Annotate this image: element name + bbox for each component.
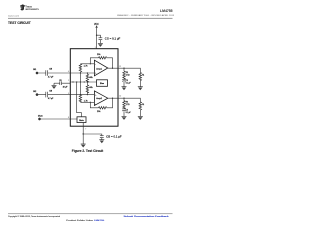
wire output2: [108, 98, 141, 102]
svg-text:Product Folder Links: LM4755: Product Folder Links: LM4755: [66, 219, 104, 222]
svg-text:1: 1: [95, 47, 96, 49]
ground snubber2: [122, 116, 127, 120]
node out1: [123, 68, 124, 69]
svg-text:Mute: Mute: [79, 119, 84, 122]
svg-text:IN1: IN1: [33, 69, 37, 71]
ground bypass: [52, 85, 57, 89]
svg-text:INSTRUMENTS: INSTRUMENTS: [25, 9, 39, 11]
wire minus input A2: [80, 101, 94, 103]
resistor Rb2 40k: [86, 82, 88, 95]
resistor RL1: [139, 72, 141, 80]
svg-text:CB: CB: [59, 80, 61, 82]
svg-text:-: -: [95, 64, 96, 66]
svg-text:RL: RL: [142, 74, 144, 76]
svg-text:Submit Documentation Feedback: Submit Documentation Feedback: [124, 215, 169, 218]
mute riser wire: [77, 82, 82, 117]
ground RL2: [138, 116, 143, 120]
wire mute block to gnd pin: [82, 123, 84, 127]
svg-text:8: 8: [68, 117, 69, 119]
svg-text:CIN: CIN: [49, 90, 52, 92]
wire plus input A2: [70, 94, 94, 96]
wire input2: [38, 94, 70, 96]
ground gnd cap: [99, 140, 104, 144]
svg-text:www.ti.com: www.ti.com: [8, 15, 19, 18]
mute terminal: [38, 118, 40, 120]
Bias block: [97, 80, 108, 87]
input terminal IN2: [36, 94, 38, 96]
op-amp A1: [94, 60, 107, 76]
capacitor CIN2: [46, 92, 48, 98]
svg-text:2.7Ω: 2.7Ω: [126, 104, 130, 106]
IC box U1: [70, 49, 118, 127]
resistor Rf2 20k: [99, 107, 107, 109]
op-amp A2: [94, 91, 107, 106]
svg-text:Copyright © 1999–2013, Texas I: Copyright © 1999–2013, Texas Instruments…: [8, 215, 60, 218]
svg-text:LM4755: LM4755: [160, 9, 173, 13]
wire output1: [108, 68, 141, 72]
svg-text:Bias: Bias: [100, 83, 104, 85]
Mute block: [77, 117, 86, 123]
snubber R2: [123, 98, 125, 109]
wire minus input A1: [80, 63, 94, 65]
capacitor CIN1: [46, 70, 48, 76]
wire gnd pin: [82, 126, 84, 144]
svg-text:40k: 40k: [89, 87, 93, 89]
capacitor CG: [100, 136, 104, 138]
svg-text:4.7 µF: 4.7 µF: [48, 77, 54, 79]
resistor Ri1 1.7k: [79, 72, 81, 82]
svg-text:12: 12: [119, 66, 121, 68]
svg-text:10 µF: 10 µF: [63, 86, 69, 88]
svg-text:IN2: IN2: [33, 91, 37, 93]
svg-text:TEST CIRCUIT: TEST CIRCUIT: [8, 21, 31, 25]
node rail dots: [72, 81, 73, 82]
ground RL1: [138, 87, 143, 91]
svg-text:Figure 2. Test Circuit: Figure 2. Test Circuit: [72, 149, 104, 153]
svg-text:10: 10: [119, 96, 121, 98]
svg-text:RL: RL: [142, 104, 144, 106]
svg-text:Mute: Mute: [38, 115, 44, 118]
wire input1: [38, 72, 70, 74]
ground snubber1: [122, 87, 127, 91]
capacitor CB: [60, 81, 62, 85]
svg-text:2: 2: [68, 80, 69, 82]
ground supply cap: [98, 43, 103, 47]
wire mute: [41, 118, 77, 120]
svg-text:CB = 0.1 µF: CB = 0.1 µF: [106, 137, 122, 139]
svg-text:CIN: CIN: [49, 69, 52, 71]
node gnd junction: [83, 133, 84, 134]
svg-text:Amp2: Amp2: [96, 97, 102, 100]
svg-text:9: 9: [68, 93, 69, 95]
resistor Rf1 20k: [99, 57, 107, 59]
snubber C2: [122, 109, 126, 111]
ground gnd pin: [81, 144, 86, 148]
node out2: [123, 98, 124, 99]
svg-text:SNAS096C – FEBRUARY 2000 – REV: SNAS096C – FEBRUARY 2000 – REVISED APRIL…: [117, 14, 175, 17]
svg-text:2.7Ω: 2.7Ω: [126, 74, 130, 76]
svg-text:0.1 µF: 0.1 µF: [126, 82, 131, 84]
feedback loop A2: [90, 98, 112, 108]
svg-text:4: 4: [68, 71, 69, 73]
svg-text:VCC: VCC: [94, 24, 99, 26]
bias rail: [70, 81, 96, 83]
resistor RL2: [139, 102, 141, 110]
resistor Ri2 1.7k: [79, 82, 81, 95]
snubber R1: [123, 68, 125, 79]
svg-text:Amp1: Amp1: [96, 67, 102, 70]
snubber C1: [122, 79, 126, 81]
header rule: [8, 17, 173, 19]
wire supply: [96, 28, 98, 49]
capacitor CS top: [99, 38, 103, 40]
TI logo bug: [20, 5, 25, 11]
wire bypass: [54, 83, 70, 85]
svg-text:20k: 20k: [97, 111, 101, 113]
wire gnd branch: [83, 134, 102, 140]
svg-text:40k: 40k: [89, 77, 93, 79]
svg-text:4.7 µF: 4.7 µF: [48, 98, 54, 100]
input terminal IN1: [36, 72, 38, 74]
svg-text:7: 7: [85, 128, 86, 130]
wire supply branch: [97, 35, 101, 43]
node supply junction: [96, 35, 97, 36]
svg-text:CS = 0.1 µF: CS = 0.1 µF: [105, 39, 121, 41]
svg-text:+: +: [95, 94, 97, 96]
svg-text:1.7k: 1.7k: [84, 65, 89, 67]
supply terminal VCC: [95, 25, 97, 27]
svg-text:0.1 µF: 0.1 µF: [126, 112, 131, 114]
wire plus input A1: [70, 72, 94, 74]
svg-text:20k: 20k: [97, 54, 101, 56]
feedback loop A1: [90, 58, 112, 68]
resistor Rb1 40k: [86, 73, 88, 74]
